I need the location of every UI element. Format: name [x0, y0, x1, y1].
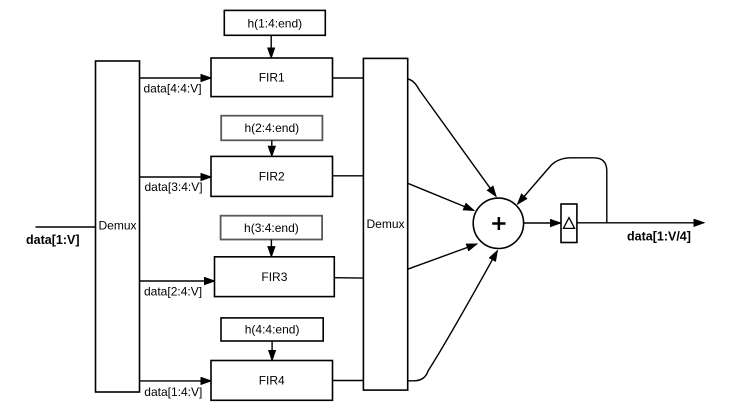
svg-text:h(4:4:end): h(4:4:end) — [245, 323, 300, 337]
wire demux to FIR1 — [140, 77, 212, 79]
svg-text:h(2:4:end): h(2:4:end) — [244, 121, 299, 135]
wire demux2 top to summer — [408, 79, 496, 196]
svg-text:Demux: Demux — [98, 219, 136, 233]
wire h4 to FIR4 — [271, 341, 273, 360]
wire h2 to FIR2 — [271, 140, 273, 156]
delay element U4 (triangle box) — [561, 204, 577, 243]
summer U3 (+) — [473, 198, 523, 248]
svg-text:data[1:V/4]: data[1:V/4] — [627, 229, 691, 243]
svg-text:data[1:V]: data[1:V] — [26, 233, 79, 247]
svg-text:data[3:4:V]: data[3:4:V] — [145, 180, 203, 194]
wire h1 to FIR1 — [270, 35, 272, 58]
wire h3 to FIR3 — [270, 240, 272, 257]
svg-text:h(1:4:end): h(1:4:end) — [247, 16, 302, 30]
demultiplexer U1 (left Demux box) — [96, 61, 140, 392]
wire FIR1 output — [333, 77, 364, 79]
svg-text:FIR1: FIR1 — [259, 71, 285, 85]
coefficient box h(1:4:end) — [224, 10, 325, 35]
wire demux2 third to summer — [408, 244, 477, 269]
wire FIR2 output — [333, 175, 364, 177]
wire demux2 second to summer — [408, 183, 474, 210]
wire demux2 bottom to summer — [408, 251, 497, 381]
svg-text:FIR2: FIR2 — [259, 170, 285, 184]
wire output data[1:V/4] — [577, 222, 704, 224]
filter FIR3 — [215, 257, 335, 297]
svg-text:FIR3: FIR3 — [261, 270, 287, 284]
wire FIR4 output — [333, 380, 364, 382]
svg-text:data[4:4:V]: data[4:4:V] — [144, 82, 202, 96]
filter FIR2 — [211, 156, 333, 196]
filter FIR4 — [211, 361, 333, 401]
demultiplexer U2 (right Demux box) — [363, 58, 407, 390]
wire feedback from output to summer — [518, 158, 607, 223]
svg-text:Demux: Demux — [366, 217, 404, 231]
svg-text:data[1:4:V]: data[1:4:V] — [144, 385, 202, 399]
coefficient box h(4:4:end) — [221, 318, 323, 341]
filter FIR1 — [211, 58, 333, 97]
svg-text:h(3:4:end): h(3:4:end) — [244, 221, 299, 235]
wire summer to delay — [524, 222, 561, 224]
svg-text:FIR4: FIR4 — [259, 374, 285, 388]
wire FIR3 output — [334, 277, 363, 279]
wire demux to FIR3 — [140, 280, 215, 282]
coefficient box h(3:4:end) — [221, 216, 323, 240]
wire demux to FIR4 — [140, 380, 212, 382]
coefficient box h(2:4:end) — [221, 116, 322, 141]
wire demux to FIR2 — [140, 176, 212, 178]
svg-text:data[2:4:V]: data[2:4:V] — [144, 285, 202, 299]
wire input data[1:V] — [36, 226, 96, 228]
